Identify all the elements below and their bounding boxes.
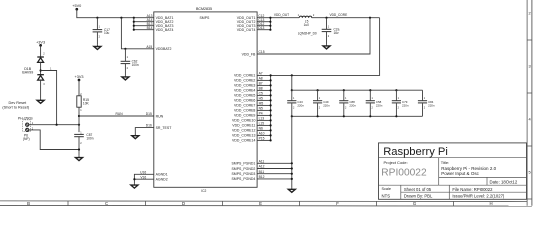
svg-text:VDD_CORE11: VDD_CORE11 (232, 124, 255, 128)
junction VDD_CORE8 (270, 109, 272, 111)
svg-text:VDD_CORE8: VDD_CORE8 (234, 109, 255, 113)
svg-text:Project Code:: Project Code: (384, 160, 408, 165)
svg-text:Issue/PMR Level: 2.2(10: Issue/PMR Level: 2.2(1027) (452, 194, 505, 199)
svg-text:VDD_OUT4: VDD_OUT4 (237, 28, 256, 32)
junction on ground rail (291, 115, 293, 117)
junction on ground rail (395, 115, 397, 117)
svg-text:VDD_CORE9: VDD_CORE9 (234, 114, 255, 118)
svg-text:A8: A8 (259, 77, 263, 81)
ground at SMPS_PGND (288, 188, 295, 193)
power +5V0 (72, 4, 81, 10)
svg-text:1: 1 (127, 56, 129, 59)
frame row numbers (529, 11, 532, 175)
svg-text:SMPS_PGND2: SMPS_PGND2 (231, 167, 255, 171)
svg-text:E: E (259, 201, 262, 206)
junction VDD_OUT2 (269, 21, 271, 23)
junction VDD_OUT3 (269, 25, 271, 27)
junction on +5V0 rail at VDD_BAT bus (133, 17, 135, 19)
diode D1B upper half BAV99 (22, 53, 45, 75)
svg-text:2: 2 (99, 35, 101, 38)
capacitor C58 220n (366, 90, 383, 116)
junction SMPS_PGND (291, 162, 293, 164)
svg-text:F: F (336, 201, 339, 206)
svg-text:N5: N5 (259, 107, 263, 111)
capacitor C2a 16v (322, 18, 340, 45)
svg-text:D15: D15 (146, 112, 152, 116)
svg-text:(NF): (NF) (23, 137, 30, 141)
svg-text:2: 2 (80, 142, 82, 145)
junction VDD_CORE cap (325, 17, 327, 19)
svg-text:220n: 220n (376, 103, 383, 107)
svg-text:SMPS_PGND3: SMPS_PGND3 (231, 172, 255, 176)
svg-text:VDDBAT2: VDDBAT2 (156, 47, 172, 51)
capacitor C88 220n (339, 90, 356, 116)
svg-text:2: 2 (319, 107, 321, 110)
ground below C17 (94, 45, 101, 50)
wire VDD_FB feedback (257, 18, 370, 54)
junction SMPS_PGND (291, 167, 293, 169)
power +3V3 at D1B (36, 40, 45, 46)
svg-text:V16: V16 (140, 175, 146, 179)
svg-text:AGND1: AGND1 (156, 173, 168, 177)
junction SMPS_PGND (291, 178, 293, 180)
junction VDD_BAT4 (133, 29, 135, 31)
svg-text:D13: D13 (258, 26, 264, 30)
svg-text:SMPS_PGND1: SMPS_PGND1 (231, 162, 255, 166)
junction VDD_CORE10 (270, 119, 272, 121)
svg-text:2: 2 (345, 107, 347, 110)
wire decoupling ground rail (292, 115, 423, 117)
svg-text:BCM2835: BCM2835 (196, 7, 212, 11)
resistor R15 10K (77, 80, 90, 132)
svg-text:+3V3: +3V3 (36, 40, 45, 44)
junction on +5V0 rail at C62 branch (120, 17, 122, 19)
wire P6 pin1 to RUN net (29, 124, 79, 126)
svg-text:Drawn By: PBL: Drawn By: PBL (404, 194, 433, 199)
svg-text:2: 2 (43, 53, 45, 56)
ground below C62 (122, 75, 129, 80)
capacitor C17 10u (93, 18, 110, 45)
svg-text:File Name: RPI00022: File Name: RPI00022 (452, 187, 493, 192)
capacitor C43 220n (287, 90, 304, 116)
frame bottom border band (0, 201, 532, 206)
diode D1B lower half BAV99 (37, 75, 45, 87)
wire drop to decoupling rail (291, 75, 293, 90)
frame right border band (527, 0, 532, 206)
svg-text:2: 2 (424, 107, 426, 110)
svg-text:P4: P4 (259, 112, 263, 116)
wire P6 pin2 to ground rail (29, 130, 79, 150)
svg-text:220n: 220n (428, 103, 435, 107)
svg-text:VDD_CORE5: VDD_CORE5 (234, 94, 255, 98)
svg-text:100n: 100n (132, 63, 139, 67)
svg-text:Dev Reset: Dev Reset (9, 101, 28, 105)
svg-text:SMPS: SMPS (199, 16, 210, 20)
junction VDD_CORE12 (270, 129, 272, 131)
junction VDD_CORE7 (270, 104, 272, 106)
junction VDD_CORE2 (270, 79, 272, 81)
inductor L5 1u0 (298, 14, 317, 36)
frame column letters (27, 201, 492, 206)
junction on decoupling rail (317, 89, 319, 91)
svg-text:H: H (489, 201, 492, 206)
wire +3V3 to diode (40, 45, 42, 57)
connector P6 PH-2/90S (18, 116, 34, 141)
capacitor C87 100n (74, 131, 94, 156)
junction on decoupling rail (343, 89, 345, 91)
IC IC2 BCM2835 SMPS block (154, 7, 257, 193)
junction VDD_CORE3 (270, 84, 272, 86)
svg-text:Power Input & Osc: Power Input & Osc (441, 171, 479, 176)
svg-text:2: 2 (372, 107, 374, 110)
svg-text:VDD_CORE4: VDD_CORE4 (234, 89, 255, 93)
capacitor C79 220n (392, 90, 409, 116)
svg-text:M5: M5 (259, 102, 264, 106)
svg-text:B12: B12 (259, 175, 265, 179)
svg-text:3: 3 (43, 83, 45, 86)
svg-text:B: B (27, 201, 30, 206)
junction P6 wire at R15 leg (78, 124, 80, 126)
svg-text:SR_TEST: SR_TEST (156, 126, 173, 130)
svg-text:VDD_CORE1: VDD_CORE1 (234, 74, 255, 78)
wire VDD_CORE feed to core pins (257, 18, 380, 76)
junction decoupling rail start (291, 89, 293, 91)
junction decoupling drop (291, 74, 293, 76)
scale cell (382, 187, 392, 198)
junction VDD_FB riser (369, 17, 371, 19)
junction VDD_OUT4 (269, 29, 271, 31)
svg-text:4: 4 (529, 117, 532, 122)
svg-text:A11: A11 (259, 159, 265, 163)
junction C87 ground (78, 148, 80, 150)
project code cell (381, 160, 427, 179)
junction RUN node (78, 115, 80, 117)
svg-text:Scale: Scale (382, 187, 392, 191)
svg-text:VDD_CORE7: VDD_CORE7 (234, 104, 255, 108)
svg-text:Date: 18Oct12: Date: 18Oct12 (490, 179, 518, 184)
svg-text:2: 2 (313, 14, 315, 17)
svg-text:D: D (182, 201, 185, 206)
svg-text:2: 2 (529, 11, 531, 16)
junction VDD_CORE14 (270, 139, 272, 141)
svg-text:1: 1 (372, 97, 374, 100)
svg-text:1: 1 (345, 97, 347, 100)
svg-text:L15: L15 (259, 122, 265, 126)
file name cell (452, 187, 505, 199)
svg-text:C15: C15 (259, 50, 265, 54)
svg-text:2: 2 (127, 67, 129, 70)
title block (379, 143, 527, 199)
junction diode node (40, 69, 42, 71)
svg-text:A12: A12 (259, 165, 265, 169)
wire RUN to IC2 (79, 112, 154, 116)
svg-text:C: C (105, 201, 108, 206)
svg-text:2: 2 (293, 107, 295, 110)
junction on decoupling rail (369, 89, 371, 91)
svg-text:A7: A7 (259, 72, 263, 76)
svg-text:B11: B11 (259, 170, 265, 174)
ground at AGND (131, 183, 138, 188)
svg-text:D16: D16 (146, 124, 152, 128)
svg-text:+5V0: +5V0 (72, 4, 81, 8)
wire AGND1/AGND2 to ground (134, 174, 153, 183)
svg-text:VDD_CORE3: VDD_CORE3 (234, 84, 255, 88)
wire VDDBAT2 branch (121, 18, 153, 49)
svg-text:10u: 10u (104, 31, 110, 35)
svg-text:1: 1 (293, 97, 295, 100)
svg-text:SMPS_PGND4: SMPS_PGND4 (231, 177, 255, 181)
wire SMPS_PGND bus to ground (257, 116, 292, 187)
svg-text:3: 3 (529, 64, 531, 69)
svg-text:Raspberry Pi: Raspberry Pi (383, 146, 448, 158)
svg-text:RPI00022: RPI00022 (381, 168, 427, 179)
capacitor C62 100n (121, 49, 139, 75)
junction on ground rail (369, 115, 371, 117)
svg-text:1: 1 (319, 97, 321, 100)
svg-text:RUN: RUN (156, 114, 164, 118)
svg-text:U16: U16 (140, 170, 146, 174)
ground below D1B (37, 99, 44, 104)
wire decoupling top rail (292, 89, 423, 91)
svg-text:1: 1 (398, 97, 400, 100)
svg-text:VDD_CORE12: VDD_CORE12 (232, 129, 255, 133)
capacitor C84 220n (418, 90, 435, 116)
svg-text:B8: B8 (259, 87, 263, 91)
junction VDD_BAT2 (133, 21, 135, 23)
svg-text:C5: C5 (259, 92, 263, 96)
junction VDD_CORE5 (270, 94, 272, 96)
junction at C62 (124, 48, 126, 50)
capacitor C49 220n (313, 90, 330, 116)
svg-text:VDD_CORE13: VDD_CORE13 (232, 134, 255, 138)
junction VDD_CORE4 (270, 89, 272, 91)
svg-text:16v: 16v (334, 31, 340, 35)
svg-text:Sheet 01 of 05: Sheet 01 of 05 (404, 187, 432, 192)
svg-text:VDD_BAT4: VDD_BAT4 (156, 28, 174, 32)
svg-text:VDD_OUT: VDD_OUT (274, 13, 289, 17)
ground at SR_TEST (132, 134, 139, 139)
svg-text:1: 1 (80, 109, 82, 112)
svg-text:Title:: Title: (441, 160, 450, 165)
junction on ground rail (343, 115, 345, 117)
junction VDD_CORE9 (270, 114, 272, 116)
junction VDD_OUT1 (269, 17, 271, 19)
svg-text:1: 1 (99, 26, 101, 29)
svg-text:220n: 220n (349, 103, 356, 107)
svg-text:2: 2 (398, 107, 400, 110)
svg-text:(Short to Reset): (Short to Reset) (2, 106, 30, 110)
svg-text:220n: 220n (402, 103, 409, 107)
wire VDD_OUT bus (257, 13, 299, 30)
junction VDD_CORE1 (270, 74, 272, 76)
svg-text:1: 1 (80, 131, 82, 134)
svg-text:+3V3: +3V3 (75, 75, 84, 79)
svg-text:100n: 100n (86, 136, 93, 140)
junction AGND (133, 178, 135, 180)
svg-text:VDD_FB: VDD_FB (242, 52, 256, 56)
wire diode mid node (40, 62, 42, 74)
title cell (441, 160, 497, 176)
junction SMPS_PGND (291, 173, 293, 175)
svg-text:1u0: 1u0 (304, 23, 310, 27)
svg-text:VDD_CORE14: VDD_CORE14 (232, 139, 255, 143)
svg-text:N6: N6 (259, 127, 263, 131)
junction on +5V0 rail at C17 (96, 17, 98, 19)
svg-text:VDD_CORE10: VDD_CORE10 (232, 119, 255, 123)
svg-text:B7: B7 (259, 82, 263, 86)
wire SR_TEST to ground (135, 128, 154, 134)
svg-text:1: 1 (328, 25, 330, 28)
svg-text:5: 5 (529, 170, 531, 175)
svg-text:BAV99: BAV99 (22, 70, 33, 74)
wire VDD_CORE pin bus (257, 75, 271, 140)
junction P6 wire at diode branch (56, 124, 58, 126)
svg-text:VDD_CORE2: VDD_CORE2 (234, 79, 255, 83)
svg-text:H5: H5 (259, 97, 263, 101)
wire diode to ground (40, 80, 42, 99)
svg-text:VDD_CORE6: VDD_CORE6 (234, 99, 255, 103)
svg-text:A15: A15 (146, 45, 152, 49)
svg-text:RUN: RUN (116, 112, 124, 116)
wire +5V0 rail (77, 9, 154, 18)
svg-text:IC2: IC2 (201, 189, 206, 193)
svg-text:220n: 220n (297, 103, 304, 107)
svg-text:NTS: NTS (382, 193, 391, 198)
svg-text:10K: 10K (83, 102, 90, 106)
junction VDD_CORE6 (270, 99, 272, 101)
svg-text:B14: B14 (147, 26, 153, 30)
ground below C2a (323, 44, 330, 49)
junction VDD_CORE13 (270, 134, 272, 136)
wire node to reset net (41, 68, 57, 125)
svg-text:AGND2: AGND2 (156, 177, 168, 181)
svg-text:P15: P15 (259, 137, 265, 141)
junction VDD_CORE11 (270, 124, 272, 126)
svg-text:1: 1 (424, 97, 426, 100)
power +3V3 at R15 (75, 75, 84, 82)
ground below C87 (76, 156, 83, 161)
svg-text:A10: A10 (259, 132, 265, 136)
junction on decoupling rail (395, 89, 397, 91)
svg-text:2: 2 (328, 35, 330, 38)
wire VDD_BAT bus (134, 18, 154, 30)
wire L5 to VDD_CORE (312, 13, 380, 18)
note Dev Reset (2, 101, 30, 110)
svg-text:LQM2HP_D0: LQM2HP_D0 (298, 32, 317, 36)
svg-text:VDD_CORE: VDD_CORE (330, 13, 348, 17)
svg-text:220n: 220n (323, 103, 330, 107)
svg-text:L13: L13 (259, 117, 265, 121)
junction on ground rail (317, 115, 319, 117)
sheet cell (404, 187, 433, 199)
junction VDD_BAT3 (133, 25, 135, 27)
